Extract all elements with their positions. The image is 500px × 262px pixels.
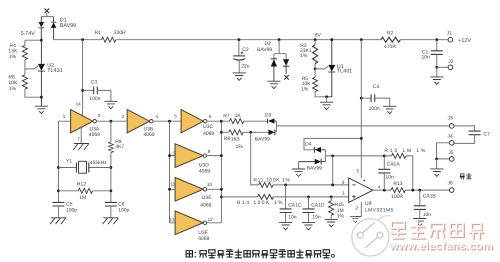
- junction J2: [435, 66, 438, 69]
- junction input bus top: [168, 120, 171, 123]
- wire: D1 common top bar: [41, 13, 53, 17]
- capacitor CA1C 10n: [280, 185, 292, 222]
- wire: pin14 vertical feed: [82, 40, 84, 116]
- ground U1: [320, 102, 333, 109]
- svg-text:330R: 330R: [114, 30, 126, 36]
- wire: D4 node to R10: [325, 155, 384, 157]
- no-connect X above D1: [45, 9, 50, 14]
- svg-text:D2: D2: [265, 41, 272, 47]
- diode D2 left (cathode up): [271, 59, 277, 81]
- diode D4 upper (cathode left): [314, 147, 325, 153]
- ground for C3: [104, 101, 117, 108]
- caption full stop: [331, 254, 334, 257]
- chassis ground pin7: [73, 144, 89, 150]
- junction J5: [435, 158, 438, 161]
- shunt regulator U1 TL431: [327, 40, 336, 97]
- resistor R1 330R: [102, 37, 116, 42]
- wire: C7 to J4: [454, 135, 474, 144]
- svg-text:J3: J3: [448, 116, 454, 122]
- junction rail/main vertical: [360, 38, 363, 41]
- wire: R6 bottom to U2 anode: [25, 69, 42, 97]
- resistor R6 10K 1%: [22, 75, 27, 89]
- junction V+/D4: [360, 137, 363, 140]
- inverter U3D 4069: [175, 144, 207, 168]
- svg-text:6: 6: [209, 114, 212, 119]
- junction R12 right: [110, 189, 113, 192]
- svg-text:J1: J1: [447, 31, 453, 37]
- wire: U1 ref: [315, 66, 328, 69]
- svg-text:100R: 100R: [391, 194, 403, 200]
- capacitor C4 100n: [361, 94, 389, 106]
- svg-text:11: 11: [170, 181, 175, 186]
- capacitor CA1A 10n: [378, 156, 390, 190]
- node junction D1-left/TL431: [40, 39, 43, 42]
- junction C2: [238, 38, 241, 41]
- ground C2: [233, 73, 246, 80]
- wire: D4 node to pin3 line: [332, 156, 334, 185]
- resistor R5 10K 1%: [313, 69, 327, 97]
- svg-text:100p: 100p: [66, 207, 77, 213]
- wire: U3B out to U3C in: [153, 120, 181, 122]
- capacitor C7: [469, 131, 481, 135]
- wire: output bus vertical: [207, 121, 222, 223]
- svg-text:1K5: 1K5: [231, 136, 240, 142]
- ground D4: [292, 169, 305, 176]
- svg-text:1M: 1M: [79, 195, 86, 201]
- svg-text:4: 4: [155, 114, 158, 119]
- junction U3A output: [110, 120, 113, 123]
- svg-text:4069: 4069: [203, 131, 214, 137]
- ground CA1D: [302, 222, 315, 229]
- svg-text:CA1D: CA1D: [311, 202, 325, 208]
- svg-text:1%: 1%: [337, 213, 345, 219]
- connector J2: [448, 65, 453, 70]
- resistor R13 100R: [391, 188, 405, 193]
- junction R3 top: [314, 38, 317, 41]
- svg-text:BAV99: BAV99: [255, 137, 270, 143]
- ground under U2: [35, 106, 48, 113]
- diode D3 upper (cathode left): [268, 118, 277, 123]
- junction D4/pin3: [331, 184, 334, 187]
- capacitor C1 10n: [431, 40, 443, 68]
- junction U3D input: [168, 154, 171, 157]
- svg-text:1%: 1%: [9, 54, 17, 60]
- svg-text:4069: 4069: [200, 202, 211, 208]
- svg-text:22u: 22u: [241, 63, 250, 69]
- svg-text:4069: 4069: [198, 236, 209, 242]
- svg-text:www.elecfans.com: www.elecfans.com: [389, 240, 493, 252]
- svg-text:C3: C3: [91, 80, 98, 86]
- svg-text:4: 4: [378, 184, 381, 189]
- svg-text:R12: R12: [77, 181, 86, 187]
- capacitor C6 100p: [105, 202, 117, 217]
- capacitor C3 100n: [83, 87, 111, 102]
- connector J3: [449, 124, 454, 129]
- inverter U3E 4069: [175, 178, 207, 202]
- junction C1/J1: [435, 38, 438, 41]
- connector J1: [448, 37, 453, 42]
- svg-text:D4: D4: [305, 142, 312, 148]
- svg-text:7: 7: [77, 137, 80, 142]
- wire: output line to J6: [373, 189, 450, 191]
- no-connect X under D2: [284, 75, 289, 80]
- junction U3E output: [220, 188, 223, 191]
- svg-text:1%: 1%: [301, 87, 309, 93]
- junction R14 tap: [220, 196, 223, 199]
- resistor R11 100K 1%: [259, 182, 273, 187]
- svg-text:Y1: Y1: [66, 159, 72, 165]
- svg-text:13: 13: [169, 218, 175, 223]
- inverter U3C 4069: [181, 110, 207, 133]
- svg-text:4K7: 4K7: [115, 144, 124, 150]
- junction rail/pin14 feed: [81, 38, 84, 41]
- junction R10 left: [383, 155, 386, 158]
- svg-text:1K: 1K: [235, 113, 242, 119]
- svg-text:3: 3: [342, 180, 345, 185]
- junction R8 tap: [220, 131, 223, 134]
- wire: right feedback vertical: [110, 121, 112, 202]
- svg-text:R13: R13: [393, 181, 402, 187]
- wire: R4-R6 junction to U2 ref: [25, 60, 38, 69]
- resistor R4 13K 1%: [22, 45, 27, 59]
- capacitor CA1D 10n: [303, 197, 315, 222]
- wire: D4 top to V+: [304, 138, 361, 149]
- chassis ground C6: [103, 218, 119, 224]
- wire: R8 node down to R11: [251, 132, 259, 185]
- svg-text:J5: J5: [448, 150, 454, 156]
- junction D4 node: [331, 155, 334, 158]
- wire: main vertical to op-amp V+: [360, 40, 362, 178]
- svg-text:CA1A: CA1A: [387, 162, 401, 168]
- junction C4 tap: [360, 97, 363, 100]
- wire: D4 anode ground stem: [298, 162, 300, 169]
- resistor R7 1K: [221, 119, 267, 124]
- svg-text:CA1C: CA1C: [288, 202, 302, 208]
- inverter U3F 4069: [175, 211, 207, 235]
- svg-text:J2: J2: [448, 59, 454, 65]
- svg-text:4069: 4069: [89, 132, 100, 138]
- ground R15: [325, 219, 338, 226]
- wire: D4 common vertical: [324, 150, 326, 162]
- wire: U3A out to U3B in: [96, 120, 127, 122]
- junction Y1 right: [110, 166, 113, 169]
- svg-text:4069: 4069: [199, 168, 210, 174]
- wire: op-amp pin2 to ground: [355, 202, 361, 216]
- capacitor CA1B 10n: [414, 190, 426, 218]
- wire: J3 to C7: [454, 126, 475, 131]
- svg-text:J6: J6: [448, 181, 454, 187]
- junction CA1B tap: [418, 189, 421, 192]
- svg-text:100n: 100n: [89, 96, 100, 102]
- junction R8/R11: [249, 131, 252, 134]
- svg-text:R8: R8: [224, 136, 231, 142]
- svg-text:8: 8: [208, 149, 211, 154]
- ground CA1B: [413, 219, 426, 226]
- resistor R14 100K 1%: [221, 194, 348, 199]
- svg-text:CA1B: CA1B: [423, 193, 437, 199]
- svg-text:R11 100K 1%: R11 100K 1%: [253, 178, 290, 184]
- svg-text:J4: J4: [448, 134, 454, 140]
- inverter U3B 4069: [127, 110, 153, 133]
- resistor R12 1M: [58, 188, 111, 193]
- shunt regulator U2 TL431: [38, 40, 45, 106]
- junction R6/U2: [40, 96, 43, 99]
- svg-text:10: 10: [207, 182, 213, 187]
- svg-text:TL431: TL431: [47, 68, 62, 74]
- label 输出 (output): [460, 174, 464, 179]
- svg-text:+12V: +12V: [458, 38, 471, 44]
- diode D1 left (cathode down): [39, 17, 45, 41]
- svg-text:12: 12: [208, 217, 214, 222]
- svg-text:TL431: TL431: [337, 68, 352, 74]
- op-amp U4 LMV321M5: [349, 178, 373, 203]
- capacitor C2 22u polarized: [233, 40, 245, 73]
- ground C4: [383, 106, 396, 113]
- junction op-amp out/CA1A: [383, 189, 386, 192]
- svg-text:BAV99: BAV99: [60, 23, 76, 29]
- op-amp minus input mark: [352, 184, 355, 186]
- watermark text 电子发烧友 (embossed): [392, 223, 483, 239]
- svg-text:8V: 8V: [315, 33, 322, 39]
- svg-text:U3C: U3C: [203, 124, 213, 130]
- wire: U1 ground stem: [326, 97, 328, 102]
- op-amp plus input mark: [352, 195, 355, 198]
- op-amp V+ mark: [363, 179, 365, 181]
- wire: D2 tee: [274, 40, 286, 60]
- junction R15 tap: [330, 196, 333, 199]
- resistor R10 1M 1%: [384, 153, 413, 190]
- junction U3D output: [220, 154, 223, 157]
- svg-text:10n: 10n: [288, 214, 297, 220]
- resistor R15 1M 1%: [329, 197, 334, 219]
- resistor R9 4K7: [108, 142, 113, 153]
- resistor R2 470R: [381, 37, 400, 42]
- svg-text:R14 100K 1%: R14 100K 1%: [237, 200, 283, 206]
- ground J4/J5: [430, 169, 443, 176]
- junction R3/R5/U1 ref: [314, 68, 317, 71]
- svg-text:4069: 4069: [144, 132, 155, 138]
- crystal Y1 455kHz: [58, 161, 111, 173]
- wire: to J2: [437, 66, 448, 68]
- connector J4: [449, 141, 454, 146]
- wire: 5.74V node: [25, 40, 41, 45]
- svg-text:BAV99: BAV99: [257, 47, 272, 53]
- resistor R8 1K5 1%: [221, 130, 268, 135]
- junction R10/output: [411, 189, 414, 192]
- ground op-amp pin2: [350, 217, 361, 223]
- diode D3 lower (cathode right): [268, 130, 275, 136]
- junction U3E input: [168, 188, 171, 191]
- svg-text:100n: 100n: [369, 106, 380, 112]
- svg-text:455kHz: 455kHz: [90, 160, 107, 166]
- junction CA1C tap: [284, 184, 287, 187]
- svg-text:5: 5: [357, 169, 360, 174]
- wire: op-amp pin3 line: [273, 184, 349, 186]
- svg-text:2: 2: [356, 205, 359, 210]
- wire: D3 common vertical: [275, 121, 277, 132]
- diode D1 right (cathode up): [51, 17, 57, 40]
- svg-text:1%: 1%: [236, 144, 244, 150]
- connector J6: [449, 188, 454, 193]
- svg-text:14: 14: [76, 102, 82, 107]
- ground J2: [430, 77, 443, 84]
- svg-text:R1: R1: [95, 30, 102, 36]
- svg-text:C2: C2: [242, 47, 249, 53]
- caption: 图: 价格低廉却十分精确的电容测量仪。: [186, 251, 192, 257]
- capacitor C5 100p: [52, 202, 64, 217]
- svg-text:U4: U4: [365, 201, 372, 207]
- svg-text:10n: 10n: [312, 214, 321, 220]
- junction C3 tap: [81, 89, 84, 92]
- svg-text:10n: 10n: [423, 212, 432, 218]
- svg-text:5.74V: 5.74V: [21, 31, 35, 37]
- wire: U3A input + left vertical: [58, 121, 70, 202]
- svg-text:2: 2: [98, 113, 101, 118]
- svg-text:5: 5: [174, 113, 177, 118]
- svg-text:1%: 1%: [300, 53, 308, 59]
- diode D4 lower (cathode right): [299, 159, 326, 165]
- wire: pin7 stem: [80, 127, 82, 143]
- svg-text:10n: 10n: [422, 54, 431, 60]
- svg-text:R2: R2: [387, 31, 394, 37]
- svg-text:470R: 470R: [384, 44, 396, 50]
- svg-text:C4: C4: [373, 84, 380, 90]
- svg-text:3: 3: [122, 114, 125, 119]
- inverter U3A 4069: [71, 110, 97, 133]
- svg-text:R7: R7: [223, 114, 230, 120]
- svg-text:U3E: U3E: [202, 195, 212, 201]
- resistor R3 23K1 1%: [313, 40, 318, 69]
- svg-text:C7: C7: [484, 132, 491, 138]
- svg-text:LMV321M5: LMV321M5: [365, 208, 394, 214]
- svg-text:9: 9: [173, 151, 176, 156]
- svg-text:10n: 10n: [385, 174, 394, 180]
- junction Y1 left: [57, 166, 60, 169]
- junction CA1D tap: [307, 196, 310, 199]
- svg-text:D3: D3: [265, 113, 272, 119]
- svg-text:1: 1: [63, 114, 66, 119]
- svg-text:BAV99: BAV99: [307, 166, 322, 172]
- wire: input bus vertical: [170, 121, 176, 223]
- wire: oscillator output line to J3: [276, 125, 449, 127]
- svg-text:100p: 100p: [118, 207, 129, 213]
- wire: top supply rail: [54, 39, 449, 41]
- wire: J5 ground stem: [436, 159, 438, 169]
- junction R12 left: [57, 189, 60, 192]
- chassis ground C5: [50, 218, 66, 224]
- watermark logo circle (elecfans): [352, 216, 390, 256]
- diode D2 right (cathode down): [283, 59, 289, 74]
- junction U3C output: [220, 120, 223, 123]
- junction D2: [278, 38, 281, 41]
- wire: J4 to J5 vertical: [437, 143, 450, 159]
- svg-text:1: 1: [342, 190, 345, 195]
- connector J5: [449, 157, 454, 162]
- ground CA1C: [279, 222, 292, 229]
- junction R5/U1 anode: [325, 95, 328, 98]
- ground D2: [267, 81, 280, 88]
- junction U1 rail: [330, 38, 333, 41]
- svg-text:1%: 1%: [9, 86, 17, 92]
- wire: J2 ground stem: [436, 67, 438, 76]
